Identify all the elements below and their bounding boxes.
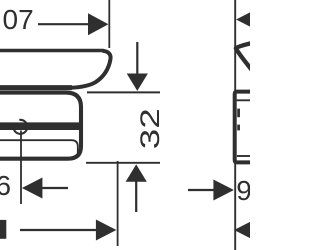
svg-text:9: 9 — [236, 175, 250, 206]
holder inner plate — [0, 140, 78, 157]
bottom right arrowhead — [234, 220, 255, 241]
bottom dimension arrowhead — [96, 220, 117, 241]
holder side inner top line — [237, 99, 250, 101]
dimension 32 lower line — [135, 181, 137, 212]
dimension 107 arrowhead — [88, 13, 108, 35]
svg-text:32: 32 — [135, 108, 165, 149]
extension line front of holder — [117, 161, 119, 246]
dish bottom line — [0, 85, 72, 90]
dimension 107 line — [38, 23, 90, 25]
holder rail band — [0, 122, 80, 130]
dimension 6 arrowhead — [22, 178, 43, 199]
svg-text:6: 6 — [0, 170, 11, 201]
dimension 9 arrowhead — [213, 180, 234, 201]
dimension 32 lower arrowhead — [126, 164, 147, 181]
holder side inner edge lower — [237, 125, 240, 131]
extension line screw center — [20, 131, 22, 205]
dish profile wedge (side view) — [236, 43, 253, 71]
dimension 32 upper arrowhead — [127, 74, 148, 91]
extension line wall face (side view) — [234, 0, 236, 250]
dimension 32 upper line — [136, 42, 138, 76]
dish rim (front view) — [0, 49, 104, 53]
svg-text:07: 07 — [3, 4, 34, 35]
dimension 9 line — [188, 189, 216, 191]
extension line top of holder — [87, 91, 160, 93]
holder side inner bottom line — [237, 155, 250, 157]
holder side view outline — [235, 92, 251, 163]
extension line bottom of holder — [86, 162, 160, 164]
holder bracket outline — [0, 93, 81, 159]
bottom dimension line — [20, 229, 97, 231]
dimension 6 line — [42, 187, 69, 189]
cropped label digit bottom left — [0, 220, 6, 239]
dish right curve — [70, 51, 111, 88]
top right arrowhead — [236, 9, 257, 30]
extension line right end of 107 — [108, 0, 110, 48]
holder side inner edge — [237, 109, 240, 118]
screw clip arc — [13, 120, 27, 134]
